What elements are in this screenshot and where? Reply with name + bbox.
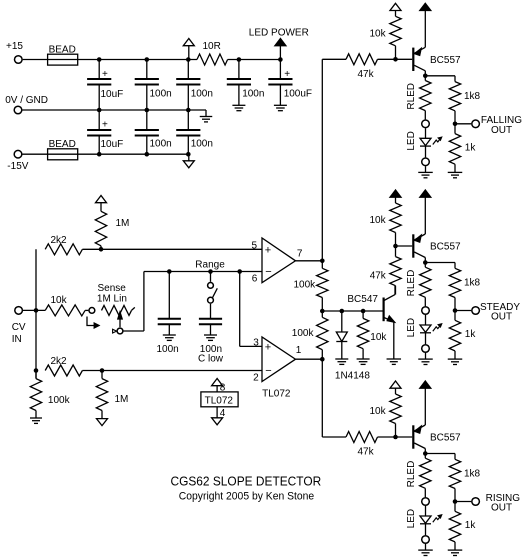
LED power rail symbol (emitter (falling)) [420, 3, 431, 47]
resistor 47k (falling) [346, 54, 378, 80]
transistor BC557 (steady) [412, 234, 461, 263]
switch Range (SPST) [208, 272, 218, 319]
pin 5 label [252, 240, 258, 251]
junction collector (falling) [423, 74, 428, 79]
svg-text:Sense: Sense [98, 283, 127, 294]
resistor 47k (rising) [346, 432, 378, 458]
junction diode [340, 309, 345, 314]
wire 10R to LED power node [228, 59, 281, 61]
svg-text:4: 4 [220, 408, 226, 419]
wire collector to 1k8 (steady) [425, 263, 455, 269]
svg-text:TL072: TL072 [205, 396, 234, 407]
wire wiper to integrator node [124, 272, 144, 332]
resistor 2k2 (upper) [45, 235, 82, 255]
junction steady node [320, 309, 325, 314]
svg-text:+: + [102, 120, 108, 131]
label Range [195, 259, 225, 270]
svg-text:BC547: BC547 [347, 294, 378, 305]
svg-text:CGS62 SLOPE DETECTOR: CGS62 SLOPE DETECTOR [171, 475, 322, 489]
pin 6 label [252, 273, 258, 284]
wire LED to ground (rising) [425, 544, 427, 550]
wire to output terminal (falling) [455, 123, 471, 125]
capacitor 100n (-15 rail, b) [176, 110, 213, 154]
pot terminal LED anode (rising) [422, 498, 430, 506]
junction output (steady) [453, 308, 458, 313]
resistor 10R [197, 41, 228, 65]
LED power rail symbol (over 10k (steady)) [390, 190, 401, 197]
+15V rail symbol (open arrow up) [183, 39, 194, 60]
junction 10k base [361, 309, 366, 314]
copyright text [179, 491, 314, 503]
junction +15/10uF [97, 57, 102, 62]
wire 47k to node (falling) [378, 58, 413, 60]
wiper pointer (small open arrow) [113, 329, 117, 333]
wire 47k feed (falling) [322, 58, 346, 60]
svg-text:47k: 47k [358, 447, 375, 458]
svg-text:0V / GND: 0V / GND [5, 95, 48, 106]
resistor R LED (falling) [406, 76, 431, 120]
pot terminal LED cathode (falling) [422, 158, 430, 166]
wire to output terminal (steady) [455, 310, 471, 312]
svg-text:BEAD: BEAD [49, 44, 76, 55]
junction 100n LED filter [237, 57, 242, 62]
svg-text:BC557: BC557 [430, 242, 461, 253]
junction 1M/pin2 line [100, 368, 105, 373]
pot terminal LED anode (falling) [422, 120, 430, 128]
capacitor 100n (LED power filter) [227, 60, 265, 106]
svg-text:OUT: OUT [491, 503, 512, 514]
resistor 1k (steady) [449, 311, 476, 360]
wire range to pin3 [240, 272, 262, 347]
svg-text:LED POWER: LED POWER [249, 28, 309, 39]
wire BC547 emitter [393, 322, 395, 359]
ground (C low cap) [204, 335, 217, 340]
transistor Q4 BC547 [347, 286, 395, 323]
svg-text:-15V: -15V [7, 161, 28, 172]
svg-text:LED: LED [406, 509, 417, 528]
label TL072 (op-amp) [262, 389, 291, 400]
pin 3 label [253, 338, 259, 349]
wire +15 rail [78, 59, 197, 61]
svg-text:+: + [265, 244, 271, 256]
LED arrow (falling) [433, 137, 442, 144]
svg-text:Range: Range [195, 259, 225, 270]
svg-text:10uF: 10uF [101, 139, 124, 150]
wire 2k2 to pin2 [82, 370, 262, 372]
svg-text:1: 1 [296, 345, 302, 356]
LED POWER rail symbol (filled arrow up) [249, 28, 309, 60]
wire collector to 1k8 (rising) [425, 454, 455, 460]
wire bus to falling 47k [321, 59, 323, 260]
wire to output terminal (rising) [455, 501, 471, 503]
capacitor 100uF (LED power) [268, 60, 312, 106]
capacitor 100n (+15 rail, a) [135, 60, 172, 111]
junction CV/2k2 lower [34, 368, 39, 373]
capacitor 10uF (+15 rail) [87, 60, 123, 111]
wire op2 output [296, 358, 323, 360]
transistor BC557 (rising) [412, 425, 461, 454]
TL072 pin 4 (-15V) [212, 407, 226, 425]
svg-text:47k: 47k [358, 69, 375, 80]
pin 7 label [297, 249, 303, 260]
op-amp U1A (TL072) [262, 337, 296, 382]
svg-text:1k: 1k [465, 520, 477, 531]
terminal 0V / GND [5, 95, 48, 114]
capacitor 100n (timing) [157, 272, 181, 356]
junction 100uF [278, 57, 283, 62]
+15V rail symbol (over 10k (falling)) [390, 3, 401, 10]
resistor 100k (CV to ground) [30, 371, 70, 419]
resistor 2k2 (lower) [45, 356, 82, 376]
LED (falling) [406, 128, 431, 157]
resistor 10k (steady) [370, 197, 402, 246]
svg-text:OUT: OUT [491, 312, 512, 323]
resistor 1M (to -15) [96, 371, 128, 419]
terminal -15V [7, 150, 28, 172]
svg-text:8: 8 [220, 383, 226, 394]
svg-text:2k2: 2k2 [51, 356, 68, 367]
svg-text:BC557: BC557 [430, 55, 461, 66]
resistor 1k8 (falling) [449, 82, 480, 124]
pot terminal LED cathode (rising) [422, 536, 430, 544]
LED (steady) [406, 315, 431, 344]
resistor 1k8 (steady) [449, 268, 480, 310]
svg-text:10k: 10k [370, 406, 387, 417]
wire base (steady) [396, 245, 413, 247]
wire -15 rail [78, 153, 189, 155]
junction 1M/pin5 line [99, 247, 104, 252]
resistor 100k (upper divider) [294, 261, 329, 311]
resistor 1k (rising) [449, 502, 476, 551]
svg-text:IN: IN [12, 334, 22, 345]
wire CV vertical bus [35, 249, 37, 378]
wire bus to rising 47k [321, 359, 323, 437]
wire 47k feed (rising) [322, 436, 346, 438]
svg-text:100n: 100n [191, 89, 213, 100]
ferrite bead BEAD (+15 rail) [48, 44, 78, 65]
svg-text:1M: 1M [116, 218, 130, 229]
LED (rising) [406, 506, 431, 535]
svg-text:LED: LED [406, 318, 417, 337]
svg-text:OUT: OUT [491, 125, 512, 136]
svg-text:100k: 100k [292, 328, 315, 339]
LED arrow (rising) [433, 515, 442, 522]
+15V rail symbol (over 10k (rising)) [390, 381, 401, 388]
svg-text:1k8: 1k8 [464, 469, 481, 480]
capacitor 100n (+15 rail, b) [176, 60, 213, 111]
svg-text:10R: 10R [203, 41, 221, 52]
svg-text:+: + [102, 69, 108, 80]
terminal CV IN [12, 307, 26, 345]
resistor 100k (lower divider) [292, 311, 328, 359]
ground (100uF) [274, 105, 287, 110]
ground (timing cap) [163, 335, 176, 340]
resistor 10k (BC547 base) [357, 311, 387, 359]
svg-text:100n: 100n [242, 89, 264, 100]
junction collector (steady) [423, 260, 428, 265]
junction range switch [208, 269, 213, 274]
junction 100n timing [167, 269, 172, 274]
terminal RISING OUT [472, 498, 480, 506]
resistor 10k (falling) [370, 11, 402, 60]
wire 47k to node (rising) [378, 436, 413, 438]
svg-text:2k2: 2k2 [51, 235, 68, 246]
LED power rail symbol (emitter (steady)) [420, 190, 431, 234]
terminal FALLING OUT [472, 120, 480, 128]
junction base node (falling) [393, 57, 398, 62]
junction range node [237, 269, 242, 274]
op-amp U1B (TL072) [262, 238, 296, 283]
ground (BC547 emitter) [387, 359, 402, 364]
ground (LED (steady)) [418, 359, 433, 364]
svg-text:2: 2 [253, 373, 259, 384]
junction +15/100n a [145, 57, 150, 62]
ground (base 10k) [357, 359, 370, 364]
svg-text:−: − [265, 266, 271, 278]
junction op2 out [320, 357, 325, 362]
TL072 power box [201, 392, 238, 407]
junction CV node [34, 308, 39, 313]
svg-text:1k8: 1k8 [464, 278, 481, 289]
ground (1k (rising)) [448, 550, 463, 555]
svg-text:6: 6 [252, 273, 258, 284]
pot terminal a (Sense) [85, 308, 95, 314]
terminal STEADY OUT [472, 307, 480, 315]
-15V rail symbol (open arrow down) [183, 154, 194, 168]
junction 0V/100n b [186, 108, 191, 113]
junction output (rising) [453, 499, 458, 504]
svg-text:BC557: BC557 [430, 433, 461, 444]
transistor BC557 (falling) [412, 47, 461, 76]
ferrite bead BEAD (-15 rail) [48, 139, 78, 160]
ground (100k) [30, 418, 42, 423]
svg-text:1M Lin: 1M Lin [97, 294, 127, 305]
title text [171, 475, 322, 489]
svg-text:100n: 100n [191, 139, 213, 150]
junction -15/100n a [145, 152, 150, 157]
ground (LED (rising)) [418, 550, 433, 555]
svg-text:47k: 47k [370, 271, 387, 282]
resistor 10k (rising) [370, 388, 402, 437]
junction 0V/100n a [145, 108, 150, 113]
svg-text:1k: 1k [465, 143, 477, 154]
pot terminal wiper [117, 328, 123, 334]
svg-text:+: + [284, 69, 290, 80]
ground (LED (falling)) [418, 172, 433, 177]
resistor R LED (steady) [406, 263, 431, 307]
ground (0V rail) [188, 110, 212, 122]
wire -15 to bead [22, 153, 47, 155]
resistor 1M (to +15) [95, 196, 129, 250]
svg-text:100uF: 100uF [284, 89, 312, 100]
svg-text:1N4148: 1N4148 [335, 371, 370, 382]
LED power rail symbol (emitter (rising)) [420, 381, 431, 425]
wire 0V rail [22, 109, 188, 111]
svg-text:BEAD: BEAD [49, 139, 76, 150]
ground (1N4148) [335, 359, 348, 364]
svg-text:5: 5 [252, 240, 258, 251]
junction op1 out [320, 259, 325, 264]
svg-text:CV: CV [12, 322, 26, 333]
junction base node (rising) [393, 435, 398, 440]
svg-text:+: + [265, 341, 271, 353]
svg-text:100n: 100n [150, 139, 172, 150]
panel arrow (pot a) [87, 317, 99, 328]
resistor 10k (CV input) [45, 295, 85, 316]
capacitor 100n (-15 rail, a) [135, 110, 172, 154]
junction output (falling) [453, 122, 458, 127]
wire collector to 1k8 (falling) [425, 76, 455, 82]
junction -15/10uF [97, 152, 102, 157]
svg-text:10k: 10k [370, 332, 387, 343]
pin 1 label [296, 345, 302, 356]
svg-text:RLED: RLED [406, 270, 417, 297]
ground (LED 100n) [232, 105, 245, 110]
svg-text:C low: C low [198, 354, 224, 365]
svg-text:1M: 1M [115, 394, 129, 405]
svg-text:TL072: TL072 [262, 389, 291, 400]
svg-text:1k: 1k [465, 329, 477, 340]
pot wiper arrow [118, 312, 122, 327]
LED arrow (steady) [433, 324, 442, 331]
svg-text:10k: 10k [370, 215, 387, 226]
svg-text:+15: +15 [6, 41, 23, 52]
svg-text:10k: 10k [370, 28, 387, 39]
junction +15/100n b [186, 57, 191, 62]
TL072 pin 8 (+15V) [212, 379, 226, 394]
wire +15 to bead [23, 59, 48, 61]
ground (1k (steady)) [448, 359, 463, 364]
junction 0V/10uF [97, 108, 102, 113]
svg-text:10uF: 10uF [101, 89, 124, 100]
resistor R LED (rising) [406, 454, 431, 498]
junction -15/100n b [186, 152, 191, 157]
terminal +15 [6, 41, 23, 63]
svg-text:Copyright 2005 by Ken Stone: Copyright 2005 by Ken Stone [179, 491, 314, 503]
wire LED to ground (falling) [425, 166, 427, 172]
capacitor 100n C low [198, 319, 224, 365]
svg-text:RLED: RLED [406, 83, 417, 110]
svg-text:3: 3 [253, 338, 259, 349]
svg-text:LED: LED [406, 131, 417, 150]
pin 2 label [253, 373, 259, 384]
resistor 47k (steady) [370, 246, 402, 295]
label FALLING OUT [481, 115, 522, 136]
capacitor 10uF (-15 rail) [87, 110, 123, 154]
wire LED to ground (steady) [425, 353, 427, 359]
svg-text:1k8: 1k8 [464, 91, 481, 102]
ground (1k (falling)) [448, 172, 463, 177]
resistor 1k (falling) [449, 124, 476, 173]
svg-text:7: 7 [297, 249, 303, 260]
junction base node (steady) [393, 244, 398, 249]
svg-text:10k: 10k [51, 295, 68, 306]
svg-text:−: − [265, 365, 271, 377]
svg-text:100n: 100n [150, 89, 172, 100]
wire steady node to base [322, 310, 383, 312]
label RISING OUT [486, 493, 521, 514]
resistor 1k8 (rising) [449, 459, 480, 501]
label STEADY OUT [480, 302, 520, 323]
potentiometer Sense 1M Lin [97, 283, 135, 315]
-15V rail symbol (below 1M) [97, 419, 108, 426]
diode 1N4148 [335, 311, 370, 382]
svg-text:100k: 100k [294, 279, 317, 290]
svg-text:RLED: RLED [406, 461, 417, 488]
svg-text:100n: 100n [157, 344, 179, 355]
pot terminal LED anode (steady) [422, 307, 430, 315]
wire pin6 line [144, 271, 262, 273]
wire op1 output [296, 260, 323, 262]
pot terminal LED cathode (steady) [422, 345, 430, 353]
svg-text:100k: 100k [48, 395, 71, 406]
wire 2k2 to pin5 [82, 248, 262, 250]
junction collector (rising) [423, 451, 428, 456]
wire CV in [23, 309, 45, 311]
